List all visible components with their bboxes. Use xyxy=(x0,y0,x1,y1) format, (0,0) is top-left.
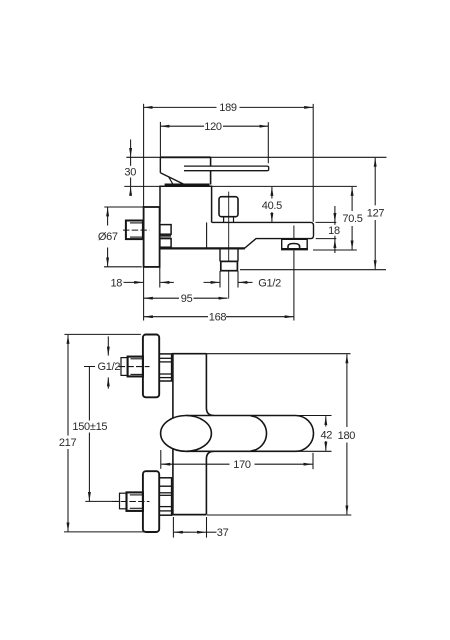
dim G1/2 top inlet xyxy=(98,336,121,388)
joint line body/spout xyxy=(206,222,208,247)
dim 37 xyxy=(173,517,228,539)
dim 95 xyxy=(144,293,228,305)
aerator under spout xyxy=(281,239,308,249)
dim 30 xyxy=(124,140,136,196)
svg-text:18: 18 xyxy=(110,277,122,289)
small connector boxes left xyxy=(160,225,171,248)
svg-text:G1/2: G1/2 xyxy=(258,278,281,290)
svg-text:189: 189 xyxy=(219,102,237,114)
svg-text:Ø67: Ø67 xyxy=(98,231,118,243)
extension line body-top y186 xyxy=(124,185,356,187)
extension line top y157 xyxy=(126,156,386,158)
center line knob/outlet xyxy=(228,192,230,299)
svg-text:95: 95 xyxy=(181,293,193,305)
dim 170 xyxy=(161,450,313,471)
svg-text:37: 37 xyxy=(217,527,229,539)
column body xyxy=(172,354,214,515)
inlet hex nut side view xyxy=(123,221,149,240)
dim 42 xyxy=(296,416,332,452)
G1/2 outlet side view xyxy=(220,249,238,270)
dim 120 xyxy=(160,121,268,164)
svg-text:40.5: 40.5 xyxy=(262,200,282,212)
dim 127 xyxy=(240,158,386,270)
svg-text:120: 120 xyxy=(204,121,222,133)
handle base xyxy=(160,157,210,184)
spout outline side view xyxy=(212,222,314,248)
dim Ø67 xyxy=(98,207,144,267)
bottom escutcheon front view xyxy=(143,471,159,532)
dim 217 xyxy=(59,334,151,532)
dim 18 right xyxy=(316,206,340,253)
body ellipse front view xyxy=(161,416,212,452)
body box xyxy=(160,186,212,222)
dim 150±15 xyxy=(72,367,119,502)
dim 70.5 xyxy=(313,187,363,250)
dim 189 xyxy=(144,102,314,222)
svg-text:170: 170 xyxy=(233,459,251,471)
dim 40.5 xyxy=(262,187,282,222)
inner arc (spout joint) xyxy=(251,416,267,451)
top G1/2 nipple xyxy=(119,357,150,377)
column bottom extension xyxy=(207,514,351,516)
svg-text:42: 42 xyxy=(320,430,332,442)
svg-text:168: 168 xyxy=(209,312,227,324)
top escutcheon front view xyxy=(143,335,159,398)
column top line + 180 extension xyxy=(172,353,351,355)
lever bar xyxy=(184,166,269,171)
bottom union block xyxy=(159,478,171,515)
diverter knob xyxy=(219,197,238,223)
bottom G1/2 nipple xyxy=(112,492,150,511)
svg-text:217: 217 xyxy=(59,437,77,449)
svg-text:18: 18 xyxy=(328,225,340,237)
wall plate (escutcheon side view) xyxy=(144,207,160,267)
dim 168 xyxy=(144,251,294,324)
svg-text:30: 30 xyxy=(124,166,136,178)
svg-text:180: 180 xyxy=(338,430,356,442)
svg-text:G1/2: G1/2 xyxy=(98,361,121,373)
svg-text:127: 127 xyxy=(367,207,385,219)
svg-text:150±15: 150±15 xyxy=(72,421,107,433)
dim G1/2 outlet xyxy=(204,271,282,290)
dim 18 bottom-left xyxy=(110,267,173,320)
top union block xyxy=(159,354,171,381)
center line aerator xyxy=(293,226,295,239)
svg-text:70.5: 70.5 xyxy=(342,213,362,225)
body bottom thick line xyxy=(160,247,245,249)
dim 180 xyxy=(338,354,356,514)
spout pill front view xyxy=(186,416,314,452)
